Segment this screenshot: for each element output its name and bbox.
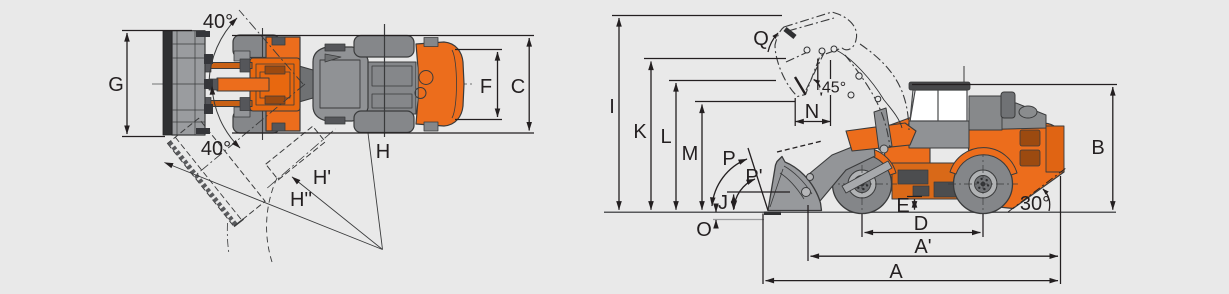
svg-text:K: K [633, 121, 647, 143]
bucket side view [768, 157, 822, 211]
svg-text:G: G [108, 74, 124, 96]
dimension O [715, 204, 717, 228]
front wheel bottom [233, 111, 280, 134]
svg-text:Q: Q [753, 28, 769, 50]
svg-text:D: D [914, 213, 928, 235]
rear frame gray [366, 62, 416, 114]
rear fender [950, 148, 1017, 175]
svg-text:40°: 40° [203, 11, 233, 33]
svg-text:O: O [696, 219, 712, 241]
dimension N [795, 60, 830, 126]
hood details [1046, 126, 1064, 172]
svg-text:B: B [1091, 137, 1104, 159]
muffler [1001, 92, 1015, 118]
rear wheel bottom [354, 111, 414, 133]
lower 40 deg line [197, 84, 305, 174]
lower 40 arc [212, 86, 240, 148]
articulation dash-dot lines [197, 10, 305, 174]
air cleaner [1019, 106, 1037, 118]
front wheel top [233, 35, 280, 58]
front wheel [827, 149, 897, 219]
dimension F [455, 50, 502, 120]
svg-text:45°: 45° [822, 80, 846, 97]
dimension C [232, 36, 534, 134]
below grade line [713, 219, 764, 221]
front frame orange [266, 37, 300, 131]
svg-text:C: C [511, 76, 525, 98]
svg-text:H: H [376, 141, 390, 163]
rear wheel top [354, 36, 414, 58]
svg-text:H'': H'' [290, 189, 312, 211]
upper 40 arc [209, 18, 237, 82]
dimension A [763, 214, 1058, 285]
30 deg departure angle [1008, 168, 1066, 212]
rear counterweight orange [416, 42, 464, 126]
svg-text:A: A [889, 261, 903, 283]
raised bucket dashed [775, 12, 909, 148]
45 deg dump angle [795, 59, 821, 96]
dimension L [669, 81, 776, 210]
cab [909, 121, 969, 148]
rear body gray [313, 47, 368, 121]
svg-text:P: P [722, 148, 735, 170]
dimension M [695, 102, 795, 210]
articulation joint [299, 66, 313, 102]
svg-text:M: M [682, 143, 699, 165]
svg-text:H': H' [313, 167, 331, 189]
dashed arc (turning circle) [267, 178, 277, 262]
dimension K [644, 59, 786, 210]
dimension I [612, 16, 782, 210]
tilt cylinder [842, 161, 892, 193]
ground line [604, 211, 1116, 213]
Q angle [768, 33, 778, 52]
svg-text:L: L [660, 126, 671, 148]
rotated dashed front frame (H') [266, 126, 336, 188]
svg-text:N: N [805, 101, 819, 123]
svg-text:40°: 40° [201, 138, 231, 160]
rear engine body orange [968, 123, 1064, 209]
center line (machine axis) [152, 83, 472, 85]
rotated dashed bucket (40 deg position) [168, 118, 266, 226]
front axle line [262, 28, 264, 140]
front fender [829, 148, 896, 175]
lift arm [805, 143, 875, 201]
lift arms [204, 63, 252, 69]
svg-text:E: E [896, 195, 909, 217]
svg-text:F: F [480, 76, 492, 98]
dimension B [912, 85, 1117, 210]
under carriage [892, 163, 964, 199]
svg-text:P': P' [745, 166, 762, 188]
svg-text:30°: 30° [1020, 193, 1050, 215]
turning radius leader lines from convergence point [165, 133, 383, 262]
dimension G [122, 31, 192, 137]
dimension D [862, 214, 983, 237]
dimension A' [808, 176, 1061, 284]
rear hood gray [969, 103, 1046, 130]
upper 40 deg line [239, 10, 303, 84]
ground shoe [764, 212, 781, 216]
svg-text:J: J [718, 192, 728, 214]
dimension E [907, 197, 922, 210]
rear axle line (H line) [384, 24, 386, 137]
solid bits of raised bucket [785, 29, 902, 128]
svg-text:A': A' [914, 236, 931, 258]
bucket (top view) [172, 31, 205, 135]
svg-text:I: I [609, 96, 615, 118]
rear wheel [948, 149, 1018, 219]
front frame orange [882, 117, 930, 196]
dimension J [727, 192, 790, 210]
P / P' angles [712, 141, 822, 211]
